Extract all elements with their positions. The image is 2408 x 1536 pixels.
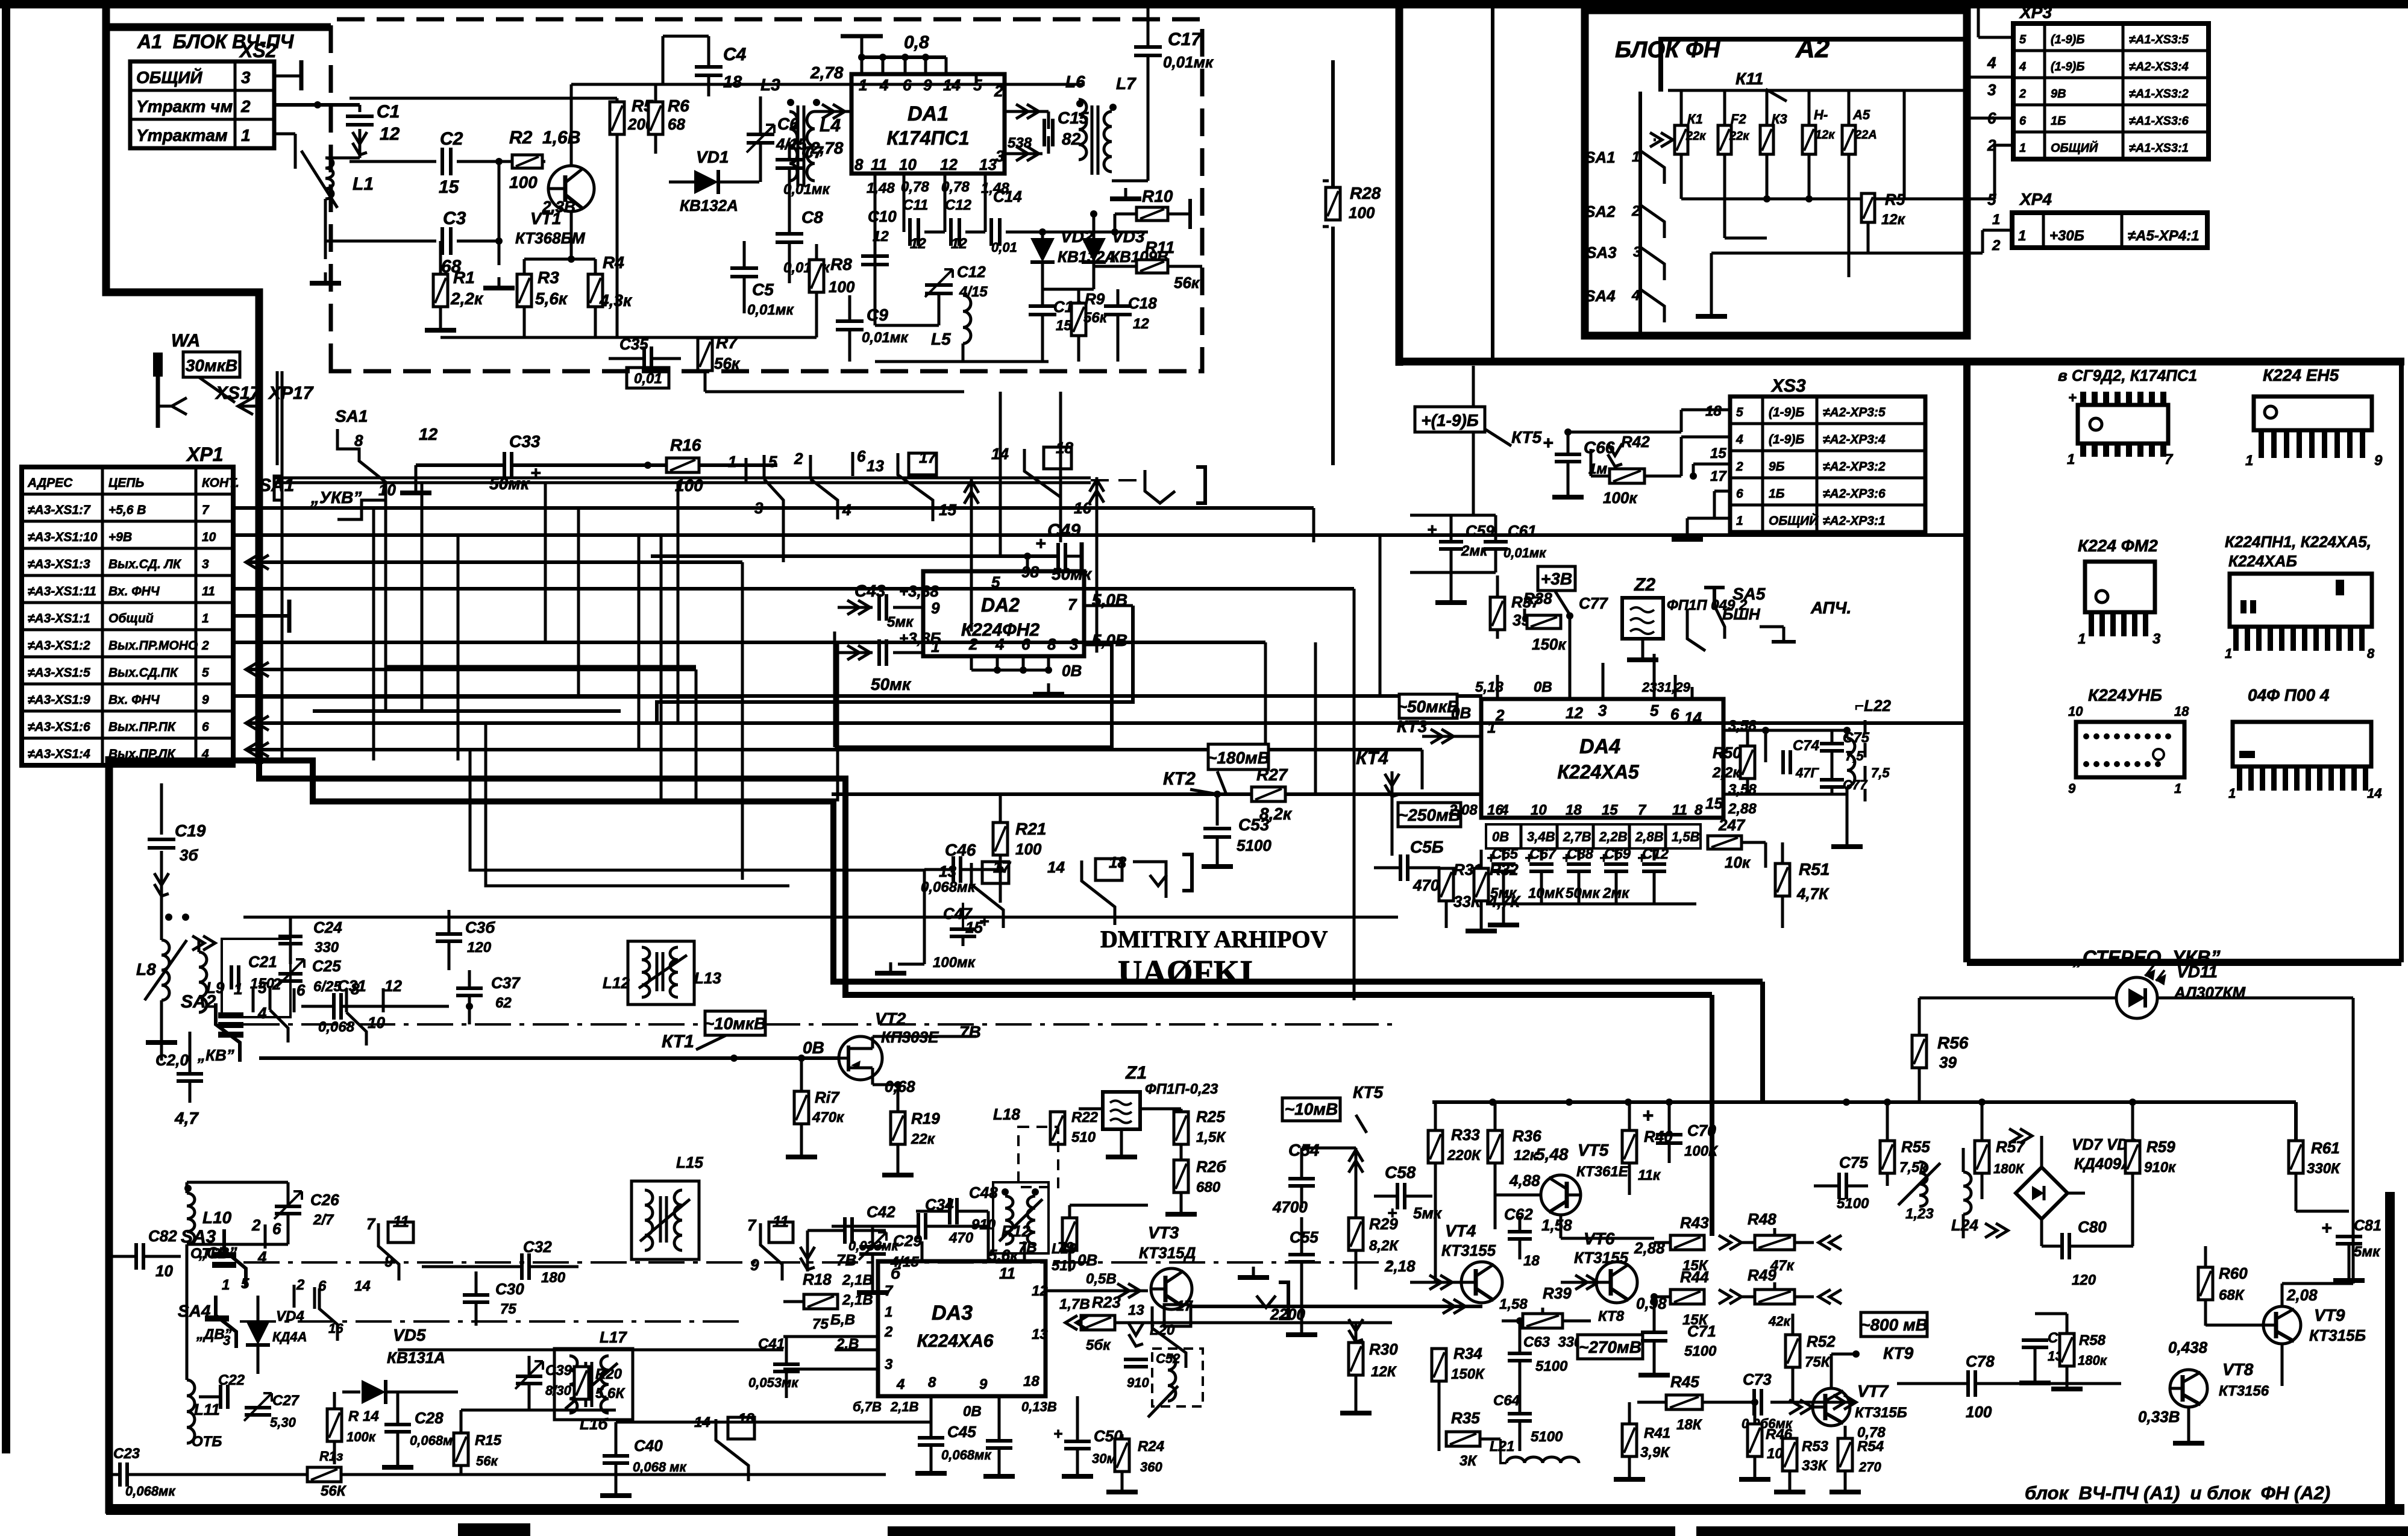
svg-text:5,6К: 5,6К (595, 1385, 626, 1402)
svg-text:4: 4 (257, 1004, 267, 1022)
svg-text:6: 6 (2019, 114, 2027, 128)
svg-text:6: 6 (1670, 705, 1679, 723)
resistor R9 (1071, 303, 1086, 336)
wire XP1:6 out (246, 716, 269, 730)
svg-text:К224ХАБ: К224ХАБ (2228, 552, 2297, 570)
capacitor C53 (1216, 794, 1219, 826)
svg-text:R61: R61 (2311, 1139, 2340, 1157)
svg-text:6: 6 (903, 76, 912, 94)
DA1 right pin2 wire (1005, 110, 1049, 113)
wire DA3 left pins (783, 1302, 784, 1392)
svg-text:4: 4 (1987, 54, 1996, 72)
capacitor C1 (359, 105, 362, 112)
svg-text:БШН: БШН (1722, 605, 1761, 623)
resistor R2 (512, 155, 542, 168)
svg-text:L6: L6 (1065, 72, 1085, 91)
svg-text:2,7В: 2,7В (1563, 829, 1591, 844)
svg-text:Вых.ПР.ЛК: Вых.ПР.ЛК (108, 747, 176, 761)
A2 inner box (1661, 39, 1963, 92)
svg-text:L15: L15 (676, 1153, 703, 1171)
svg-text:2,8В: 2,8В (1635, 829, 1664, 844)
svg-text:7В: 7В (836, 1251, 856, 1269)
wire bottom bus line (398, 1391, 783, 1393)
svg-text:11: 11 (999, 1264, 1015, 1282)
svg-text:12: 12 (1133, 316, 1149, 332)
svg-text:5: 5 (768, 453, 777, 471)
svg-text:1: 1 (202, 612, 209, 625)
transistor VT1 (548, 166, 594, 212)
svg-text:Yтракт чм: Yтракт чм (136, 97, 233, 116)
wire (1-9)B (1568, 431, 1681, 434)
svg-text:К224 ЕН5: К224 ЕН5 (2263, 366, 2339, 384)
svg-text:блок ВЧ-ПЧ (А1) и блок ФН (: блок ВЧ-ПЧ (А1) и блок ФН (А2) (2025, 1482, 2330, 1503)
svg-text:14: 14 (354, 1278, 371, 1294)
svg-text:1: 1 (222, 1277, 230, 1293)
wire middle column x1598 (962, 371, 964, 392)
svg-text:5мк: 5мк (1490, 885, 1517, 901)
svg-text:150К: 150К (1451, 1366, 1485, 1382)
wire net N (962, 371, 964, 392)
svg-text:4: 4 (2019, 60, 2026, 74)
svg-text:13: 13 (1128, 1302, 1144, 1318)
resistor R38 (1527, 615, 1561, 629)
svg-text:С74: С74 (1793, 738, 1819, 754)
svg-text:≠А2-ХР3:6: ≠А2-ХР3:6 (1823, 487, 1886, 501)
svg-text:5: 5 (2019, 33, 2027, 46)
svg-text:VТ7: VТ7 (1857, 1382, 1889, 1400)
resistor R42 (1610, 469, 1645, 483)
bottom mid rail (783, 1391, 878, 1393)
trimmer C29 / C34 row (859, 1247, 886, 1254)
resistor R8 (809, 260, 824, 292)
svg-text:2,08: 2,08 (2286, 1286, 2318, 1304)
svg-text:100: 100 (509, 173, 538, 192)
svg-text:К224ХА5: К224ХА5 (1557, 761, 1640, 783)
svg-text:ОБЩИЙ: ОБЩИЙ (1769, 513, 1819, 528)
wire XP1:4 out (246, 742, 269, 757)
transistor VT7 (1813, 1388, 1850, 1426)
svg-text:18: 18 (723, 72, 742, 91)
dash-dot band line SA4 (240, 1320, 747, 1323)
svg-text:С8: С8 (801, 208, 823, 227)
svg-text:5100: 5100 (1237, 836, 1271, 854)
resistor R53 (1782, 1438, 1797, 1471)
svg-text:1,58: 1,58 (1541, 1216, 1572, 1234)
resistor R31 (1439, 868, 1453, 901)
wire net J (1265, 642, 1266, 747)
svg-text:10к: 10к (1725, 853, 1751, 871)
switch bus double line (274, 477, 1091, 480)
svg-text:0,068мк: 0,068мк (125, 1484, 176, 1499)
svg-text:360: 360 (1140, 1459, 1162, 1475)
junction R16 (644, 462, 651, 469)
svg-text:R20: R20 (595, 1366, 622, 1382)
svg-text:+: + (979, 912, 989, 930)
svg-text:L11: L11 (194, 1400, 220, 1418)
svg-text:VТ2: VТ2 (875, 1009, 906, 1028)
svg-text:18: 18 (1023, 1373, 1039, 1390)
svg-text:0,01: 0,01 (991, 240, 1017, 255)
svg-text:68: 68 (668, 115, 685, 133)
svg-text:2,1В: 2,1В (842, 1272, 873, 1288)
inductor L10 (187, 1193, 195, 1244)
svg-text:R42: R42 (1621, 433, 1650, 451)
svg-text:+: + (1642, 1105, 1654, 1126)
dash-dot band line SA3 (243, 1261, 1398, 1264)
capacitor C70 (1656, 1135, 1682, 1143)
svg-text:С45: С45 (947, 1423, 976, 1441)
svg-text:22к: 22к (1729, 130, 1749, 143)
svg-text:10мК: 10мК (1528, 885, 1565, 901)
svg-text:8: 8 (1047, 635, 1056, 653)
contact 2-6 (809, 455, 812, 479)
svg-text:SА1: SА1 (1585, 148, 1616, 166)
callout +3V (1538, 566, 1575, 591)
svg-text:+: + (1543, 433, 1554, 453)
resistor R1 (433, 274, 448, 307)
ground bracket mid (1133, 862, 1166, 898)
svg-text:1: 1 (1736, 514, 1743, 528)
resistor R45 (1666, 1395, 1702, 1409)
svg-text:+3,88: +3,88 (899, 582, 939, 600)
wire return pair A (470, 750, 924, 870)
svg-text:100: 100 (1966, 1403, 1992, 1421)
wire XP1:5 out (246, 662, 269, 677)
resistor R14 (327, 1409, 342, 1441)
wire VT2 drain (873, 1035, 976, 1038)
svg-text:12к: 12к (1514, 1147, 1538, 1164)
IF transformer L12-L13 (628, 941, 694, 1005)
adjacent page bottom bar right (1696, 1526, 2408, 1536)
callout 180mV (1207, 744, 1270, 770)
svg-text:5100: 5100 (1535, 1358, 1568, 1375)
svg-text:+3В: +3В (1541, 569, 1572, 588)
svg-text:12: 12 (419, 425, 438, 444)
svg-text:С47: С47 (943, 904, 973, 923)
svg-text:3: 3 (885, 1356, 893, 1373)
svg-text:1: 1 (931, 638, 939, 656)
svg-text:5мк: 5мк (887, 614, 914, 630)
svg-text:R52: R52 (1807, 1332, 1836, 1350)
wire DA2 pin3 out (1084, 644, 1112, 647)
packages area left border (1963, 362, 1971, 962)
svg-text:14: 14 (1684, 709, 1702, 727)
svg-text:+: + (1035, 534, 1046, 554)
inductor L6-L7 (1079, 99, 1086, 160)
svg-text:VТ5: VТ5 (1578, 1141, 1609, 1159)
svg-text:С61: С61 (1508, 522, 1537, 540)
XP3 wires (1967, 76, 2013, 79)
capacitor C74 (1783, 750, 1790, 774)
svg-text:WA: WA (171, 331, 200, 351)
svg-text:С33: С33 (509, 432, 541, 451)
svg-text:КТ315Б: КТ315Б (1855, 1405, 1907, 1421)
svg-text:12к: 12к (1815, 128, 1835, 142)
svg-text:R1з: R1з (319, 1449, 343, 1464)
svg-text:5мк: 5мк (1413, 1204, 1443, 1222)
resistor R34 (1432, 1349, 1446, 1381)
svg-text:0В: 0В (1062, 662, 1082, 680)
svg-text:VТ9: VТ9 (2314, 1306, 2345, 1324)
svg-text:0,8: 0,8 (904, 33, 929, 52)
wire return pair B (486, 723, 789, 886)
svg-text:R60: R60 (2219, 1264, 2248, 1282)
svg-text:ОТБ: ОТБ (192, 1434, 222, 1450)
svg-text:≠А1-ХS3:1: ≠А1-ХS3:1 (2129, 142, 2189, 155)
svg-text:7: 7 (366, 1215, 376, 1233)
svg-text:75: 75 (500, 1301, 516, 1317)
svg-text:Ri7: Ri7 (815, 1088, 840, 1106)
svg-text:L5: L5 (931, 330, 951, 348)
wire M KT5 line (1366, 1133, 1367, 1148)
svg-text:2,2к: 2,2к (450, 289, 484, 308)
svg-text:11: 11 (1672, 802, 1687, 818)
pot R49 (1755, 1290, 1795, 1304)
svg-text:3К: 3К (1460, 1453, 1478, 1469)
svg-text:4: 4 (201, 747, 209, 761)
svg-text:С11: С11 (903, 197, 928, 213)
svg-text:≠А1-ХS3:5: ≠А1-ХS3:5 (2129, 33, 2189, 46)
svg-text:4,88: 4,88 (1509, 1171, 1540, 1190)
svg-text:100: 100 (1015, 840, 1042, 858)
svg-text:4/15: 4/15 (959, 284, 988, 300)
svg-text:0,33В: 0,33В (2138, 1408, 2180, 1426)
wire XS2 pin3 ground (274, 75, 301, 78)
resistor R28 (1326, 187, 1340, 220)
svg-text:6: 6 (1021, 635, 1030, 653)
wire DA2 verticals up (999, 392, 1002, 556)
resistor R11 (1137, 260, 1168, 273)
DA4 pin wires top (1496, 675, 1499, 699)
svg-text:К1: К1 (1687, 111, 1703, 127)
svg-text:R44: R44 (1680, 1268, 1709, 1286)
svg-text:R43: R43 (1680, 1214, 1709, 1232)
long wire top bus 2 (1710, 995, 1714, 1236)
svg-text:С21: С21 (248, 953, 277, 971)
wire net A (276, 371, 279, 465)
resistor R58 (2060, 1334, 2074, 1366)
svg-text:0,068мк: 0,068мк (921, 879, 976, 895)
svg-text:R56: R56 (1937, 1033, 1969, 1052)
svg-text:L1: L1 (353, 174, 374, 194)
resistor R26 (1174, 1160, 1188, 1193)
resistor R37 (1490, 597, 1505, 630)
svg-text:0,5В: 0,5В (1086, 1271, 1117, 1287)
wire DA3 pin12 to VT3 (1046, 1290, 1148, 1293)
svg-text:КТ5: КТ5 (1353, 1083, 1384, 1102)
svg-text:С30: С30 (495, 1280, 524, 1298)
svg-text:10: 10 (1531, 802, 1547, 818)
wire L4 to DA1 (822, 104, 845, 119)
svg-text:(1-9)Б: (1-9)Б (1769, 433, 1804, 447)
svg-text:R24: R24 (1138, 1438, 1164, 1455)
svg-text:КД4А: КД4А (272, 1329, 307, 1344)
wire XP1:7 +5.6V (233, 506, 1314, 510)
svg-text:С12: С12 (945, 197, 972, 213)
svg-text:9: 9 (384, 1252, 393, 1270)
svg-text:5бк: 5бк (1086, 1337, 1111, 1353)
svg-text:1: 1 (2067, 451, 2075, 468)
svg-text:2: 2 (201, 639, 209, 653)
svg-text:180к: 180к (2078, 1353, 2108, 1368)
svg-text:1,7В: 1,7В (1059, 1296, 1090, 1312)
svg-text:С22: С22 (218, 1372, 245, 1388)
resistor R12 (1062, 1218, 1077, 1250)
packages area bottom border (1967, 959, 2401, 966)
switch SA5 (1713, 588, 1716, 606)
svg-text:2мк: 2мк (1602, 885, 1630, 901)
svg-text:5,18: 5,18 (1475, 679, 1503, 695)
package DIP14 (2078, 405, 2168, 444)
svg-text:1: 1 (2018, 228, 2026, 244)
svg-text:4,7К: 4,7К (1796, 885, 1830, 903)
svg-text:VD5: VD5 (393, 1326, 426, 1344)
wire DA4 right pin15 (1723, 793, 1847, 796)
resistor R33 (1428, 1130, 1443, 1163)
svg-text:12: 12 (873, 228, 889, 245)
capacitor C79 (2022, 1340, 2048, 1347)
wire density horizontals middle (259, 696, 742, 699)
svg-text:5,6к: 5,6к (535, 289, 568, 308)
svg-text:+: + (530, 463, 541, 483)
svg-text:6: 6 (1736, 487, 1743, 501)
capacitor C24 (278, 936, 303, 944)
wire +5V rail to XS3 (1313, 410, 1314, 542)
svg-text:С71: С71 (1687, 1322, 1716, 1340)
svg-text:КТ9: КТ9 (1883, 1344, 1914, 1362)
svg-text:VТ8: VТ8 (2222, 1360, 2254, 1379)
capacitor C71 (1641, 1332, 1667, 1341)
VT7 wires (1830, 1354, 1833, 1388)
svg-text:„УКВ”: „УКВ” (310, 488, 362, 507)
junction C2-R2 (495, 158, 503, 165)
resistor R36 (1488, 1130, 1502, 1163)
svg-text:ХР17: ХР17 (268, 383, 314, 403)
svg-text:10: 10 (202, 530, 216, 544)
svg-text:L3: L3 (760, 75, 780, 94)
svg-text:С81: С81 (2354, 1217, 2381, 1234)
svg-text:13: 13 (867, 457, 884, 475)
svg-text:VD3: VD3 (1112, 227, 1145, 246)
svg-text:0В: 0В (1077, 1251, 1097, 1269)
wire top rail RF (350, 97, 617, 100)
block A1 frame staircase bottom-left (106, 760, 1763, 982)
svg-text:R19: R19 (911, 1109, 940, 1127)
inductor L11 (187, 1380, 195, 1443)
switch common dashed to gnd (1091, 479, 1145, 481)
RF section dashed box (331, 19, 1202, 371)
svg-text:0,01мк: 0,01мк (862, 330, 909, 346)
svg-text:С80: С80 (2078, 1218, 2107, 1236)
svg-text:5: 5 (991, 573, 1000, 591)
resistor R4 (588, 274, 603, 307)
svg-text:14: 14 (943, 76, 961, 94)
svg-text:R38: R38 (1523, 589, 1552, 607)
svg-text:F2: F2 (1731, 111, 1746, 127)
svg-text:R45: R45 (1670, 1373, 1699, 1391)
svg-text:270: 270 (1858, 1459, 1881, 1475)
svg-text:С28: С28 (415, 1409, 444, 1427)
svg-text:R55: R55 (1901, 1138, 1930, 1156)
package K224UN6 (2076, 722, 2184, 777)
svg-text:82: 82 (1062, 130, 1081, 148)
svg-text:≠А1-ХS3:2: ≠А1-ХS3:2 (2129, 87, 2189, 101)
svg-text:≠А3-ХS1:3: ≠А3-ХS1:3 (28, 557, 90, 571)
svg-text:С40: С40 (634, 1437, 663, 1455)
capacitor C75 (1839, 1173, 1846, 1199)
svg-text:С39: С39 (545, 1362, 572, 1379)
svg-text:R36: R36 (1513, 1127, 1541, 1145)
capacitor C32 (522, 1253, 529, 1280)
svg-text:Z2: Z2 (1634, 575, 1655, 595)
svg-text:68К: 68К (2219, 1287, 2245, 1303)
varicap VD3 (1082, 238, 1106, 262)
wire XP1:2 mono out (233, 641, 1265, 644)
svg-text:2,88: 2,88 (1728, 801, 1757, 817)
capacitor C35 (644, 346, 651, 371)
svg-text:С78: С78 (1966, 1352, 1995, 1370)
svg-text:0,438: 0,438 (2168, 1338, 2208, 1356)
svg-text:4: 4 (879, 76, 889, 94)
svg-text:5100: 5100 (1684, 1343, 1717, 1359)
svg-text:~800 мВ: ~800 мВ (1860, 1315, 1928, 1334)
svg-text:3,9К: 3,9К (1640, 1444, 1670, 1461)
IC DA3 K224XA6 (878, 1261, 1046, 1396)
svg-text:220К: 220К (1447, 1147, 1482, 1164)
svg-text:С54: С54 (1288, 1141, 1320, 1159)
capacitor C31 (334, 993, 341, 1020)
svg-text:R4: R4 (603, 253, 624, 272)
block A1 outer border (106, 8, 259, 764)
svg-text:2,1В: 2,1В (842, 1292, 873, 1308)
svg-text:2: 2 (794, 450, 803, 468)
svg-text:R11: R11 (1145, 238, 1174, 257)
svg-text:Вых.СД.ПК: Вых.СД.ПК (108, 666, 179, 680)
svg-text:С70: С70 (1687, 1121, 1716, 1139)
svg-text:11: 11 (202, 585, 215, 598)
svg-text:≠А3-ХS1:11: ≠А3-ХS1:11 (28, 585, 96, 598)
wire net K (1422, 789, 1423, 868)
svg-text:1: 1 (859, 76, 867, 94)
svg-text:R49: R49 (1748, 1266, 1776, 1284)
wire bottom horizontals (398, 1349, 783, 1352)
svg-text:С18: С18 (1128, 294, 1157, 312)
border left bar (2, 0, 10, 1453)
capacitor C81 (2336, 1237, 2362, 1244)
A2 wiring rows (1668, 89, 1963, 92)
svg-text:510: 510 (1052, 1258, 1076, 1274)
svg-text:5: 5 (241, 1276, 249, 1292)
resistor R23 (1081, 1315, 1115, 1330)
svg-text:3: 3 (995, 147, 1005, 165)
svg-text:2,1В: 2,1В (890, 1399, 919, 1414)
svg-text:КТ8: КТ8 (1598, 1308, 1625, 1324)
capacitor C58 (1397, 1183, 1405, 1209)
resistor R41 (1622, 1424, 1637, 1456)
wire right mid verticals (1379, 535, 1382, 697)
resistor R16 (666, 458, 699, 472)
svg-text:0,13В: 0,13В (1021, 1399, 1057, 1414)
svg-text:12: 12 (910, 236, 926, 252)
svg-text:1: 1 (885, 1304, 892, 1320)
svg-text:+: + (1427, 520, 1437, 539)
svg-text:Вых.СД. ЛК: Вых.СД. ЛК (108, 557, 182, 571)
svg-text:6: 6 (272, 1220, 281, 1238)
capacitor C59 (1439, 542, 1463, 549)
filter Z2 (1622, 598, 1663, 639)
svg-text:Вх. ФНЧ: Вх. ФНЧ (108, 693, 160, 707)
svg-text:L1б: L1б (580, 1415, 608, 1433)
